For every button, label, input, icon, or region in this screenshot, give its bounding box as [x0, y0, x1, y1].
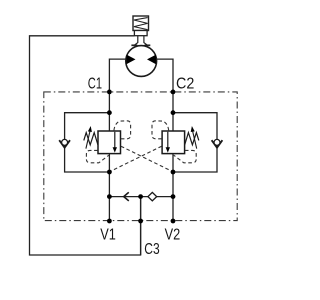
RV1 pilot loop top [114, 121, 131, 139]
svg-text:C2: C2 [176, 75, 194, 92]
node V1 port [107, 219, 112, 224]
check valve CV1 [59, 139, 70, 147]
RV2 adjust arrow [191, 126, 197, 149]
hydraulic motor circle M1 [126, 46, 157, 77]
RV1 spring [84, 133, 98, 145]
RV2 drain loop bottom [174, 150, 197, 162]
node left check junction [107, 170, 112, 175]
wire motor left to C1 line [109, 59, 126, 131]
wire outer brake/C3 loop [30, 36, 141, 255]
brake piston flange [134, 31, 147, 36]
svg-text:C3: C3 [144, 241, 159, 258]
RV2 internal flow arrow [166, 132, 170, 153]
RV1 pilot diagonal to C2 side [121, 146, 173, 172]
node C2 branch junction [171, 110, 176, 115]
wire right check valve to node [173, 147, 217, 172]
RV1 drain loop bottom [86, 150, 109, 162]
check valve CV2 [212, 139, 223, 147]
node C3 border crossing [138, 219, 143, 224]
RV2 pilot loop top [152, 121, 169, 139]
svg-text:V2: V2 [165, 227, 181, 244]
node right check junction [171, 170, 176, 175]
node C1 branch junction [107, 110, 112, 115]
wire C3 drop below envelope [140, 197, 142, 255]
wire left branch to check valve [65, 113, 110, 140]
RV1 internal flow arrow [113, 132, 117, 153]
RV2 pilot diagonal to C1 side [109, 146, 161, 172]
node bottom line left [107, 194, 112, 199]
relief valve RV1 box [98, 131, 121, 154]
envelope dashed boundary of valve block [44, 92, 237, 221]
node C2 top border [171, 90, 176, 95]
wire bottom cross line [109, 196, 173, 198]
motor triangle right [147, 55, 156, 65]
node C1 top border [107, 90, 112, 95]
svg-text:C1: C1 [88, 76, 102, 93]
wire motor right to C2 line [156, 59, 173, 131]
brake spring box [133, 16, 149, 31]
RV2 spring [185, 133, 199, 145]
relief valve RV2 box [162, 131, 185, 154]
wire left check valve to node [65, 147, 110, 172]
node V2 port [171, 219, 176, 224]
orifice diamond on cross line [148, 192, 157, 200]
wire C2 line below valve to V2 port [172, 154, 174, 221]
flow chevron on cross line [124, 192, 129, 201]
wire right branch to check valve [173, 113, 217, 140]
node C3 junction [138, 194, 143, 199]
node bottom line right [171, 194, 176, 199]
wire C1 line below valve to V1 port [108, 154, 110, 221]
brake stem and flare [131, 36, 150, 46]
motor triangle left [127, 55, 136, 65]
RV1 adjust arrow [86, 126, 92, 149]
svg-text:V1: V1 [100, 227, 116, 244]
